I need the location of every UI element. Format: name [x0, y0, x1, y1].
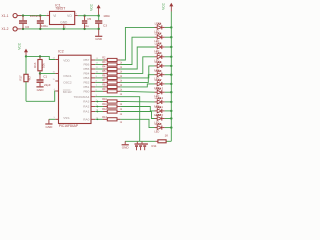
LED LED10	[154, 113, 164, 125]
svg-text:PB5: PB5	[83, 67, 89, 71]
LED LED1	[154, 22, 164, 34]
resistor R16 (RC oscillator)	[33, 56, 45, 73]
junction bus row LED12	[170, 101, 172, 103]
junction RA1 row	[97, 111, 99, 113]
wire node to OSC1	[40, 73, 55, 75]
junction RA0 row	[97, 118, 99, 120]
junction bus row LED2	[170, 36, 172, 38]
svg-text:R3: R3	[102, 61, 106, 64]
junction IC1 GND to rail	[63, 28, 65, 30]
capacitor C3	[95, 20, 102, 29]
wire LED7 to bus	[165, 83, 172, 85]
pin T0CKI/RA4 (3)	[74, 95, 98, 99]
resistor R7	[95, 79, 123, 87]
svg-text:RA1: RA1	[83, 110, 89, 114]
svg-text:R13: R13	[102, 116, 107, 119]
LED LED5	[154, 60, 164, 72]
svg-text:LED5: LED5	[155, 60, 162, 64]
wire VCC node down to C3	[98, 16, 100, 21]
LED LED7	[154, 78, 164, 90]
svg-text:C3: C3	[103, 23, 107, 27]
pin RA3 (2)	[83, 100, 97, 104]
capacitor C1 22pF	[37, 74, 51, 88]
svg-text:PB7: PB7	[83, 58, 89, 62]
LED LED12	[154, 96, 164, 108]
junction bus row LED11	[170, 110, 172, 112]
svg-text:C5: C5	[87, 17, 91, 21]
wire R3 to LED row 2	[120, 37, 154, 64]
resistor R4	[95, 66, 123, 74]
svg-text:RA3: RA3	[83, 100, 89, 104]
wire LED1 to bus	[165, 26, 172, 28]
junction bus row LED7	[170, 83, 172, 85]
svg-text:R12: R12	[102, 108, 107, 111]
LED LED3	[154, 41, 164, 53]
pin PB4 (10)	[83, 72, 98, 76]
wire LED13 to bus	[165, 91, 172, 93]
wire bottom GND rail	[22, 28, 99, 30]
wire R14 to ground	[125, 140, 155, 142]
resistor R5	[95, 70, 123, 78]
wire LED6 to bus	[165, 74, 172, 76]
svg-text:LED7: LED7	[155, 78, 162, 82]
LED LED6	[154, 69, 164, 81]
wire VCC to IC2 VDD	[26, 56, 55, 59]
svg-text:C4: C4	[36, 14, 40, 18]
wire LED2 to bus	[165, 36, 172, 38]
svg-text:1k: 1k	[120, 114, 123, 116]
capacitor C5	[82, 16, 87, 29]
LED LED11	[154, 105, 164, 117]
svg-text:1k: 1k	[120, 109, 123, 111]
junction bus row LED4	[170, 56, 172, 58]
resistor R3	[95, 61, 123, 69]
svg-text:GND: GND	[122, 146, 130, 150]
LED LED9	[154, 122, 164, 134]
svg-text:R14: R14	[152, 144, 157, 148]
junction bus row LED3	[170, 46, 172, 48]
svg-text:VCC: VCC	[161, 2, 165, 10]
wire LED4 to bus	[165, 56, 172, 58]
junction C4 top	[39, 14, 41, 16]
junction C5 bottom	[83, 28, 85, 30]
svg-text:PB1: PB1	[83, 85, 89, 89]
svg-text:1K: 1K	[165, 133, 169, 137]
svg-text:VDD: VDD	[63, 58, 70, 62]
svg-text:X1-2: X1-2	[2, 27, 9, 31]
pin OSC1 (16)	[52, 71, 71, 78]
svg-text:VI: VI	[53, 14, 56, 18]
pin PB1 (7)	[83, 85, 97, 89]
pin MCLR (4)	[54, 89, 73, 94]
svg-text:100n: 100n	[103, 14, 110, 18]
LED LED13	[154, 87, 164, 99]
wire R8 to LED row 7	[120, 84, 154, 87]
svg-text:PB2: PB2	[83, 81, 89, 85]
wire R9 to LED row 8	[120, 90, 154, 93]
junction bus row LED10	[170, 117, 172, 119]
svg-text:GND: GND	[60, 20, 68, 24]
svg-text:VSS: VSS	[63, 116, 69, 120]
resistor R11	[95, 103, 123, 111]
svg-text:LED11: LED11	[155, 105, 164, 109]
svg-text:PB4: PB4	[83, 72, 89, 76]
wire IC1 VO to VCC node	[78, 15, 99, 17]
resistor R13	[95, 116, 123, 124]
wire T0CKI/RA4 down to bottom component	[95, 97, 140, 142]
ground (LED bus R14)	[122, 141, 130, 149]
wire R6 to LED row 5	[120, 66, 154, 78]
junction R16 top	[39, 55, 41, 57]
junction R16/C1/OSC1 node	[39, 72, 41, 74]
svg-text:X1-1: X1-1	[2, 14, 9, 18]
LED LED4	[154, 51, 164, 63]
resistor R14 1K	[155, 133, 171, 142]
wire LED11 to bus	[165, 110, 172, 112]
svg-text:LED12: LED12	[155, 96, 164, 100]
svg-text:5: 5	[54, 117, 56, 119]
svg-text:LED9: LED9	[155, 122, 162, 126]
resistor R2	[95, 57, 123, 65]
junction bus row LED1	[170, 26, 172, 28]
junction bus row LED6	[170, 74, 172, 76]
wire R12 to LED row 11	[120, 112, 154, 119]
svg-text:PB3: PB3	[83, 76, 89, 80]
svg-text:GND: GND	[45, 125, 53, 129]
pin PB7 (13)	[83, 58, 98, 62]
pin VDD (14)	[52, 57, 70, 62]
wire LED5 to bus	[165, 65, 172, 67]
svg-text:C6: C6	[25, 25, 29, 29]
svg-text:LED1: LED1	[155, 22, 162, 26]
svg-text:C1: C1	[43, 75, 47, 79]
pin PB6 (12)	[83, 63, 98, 67]
svg-text:R4: R4	[102, 66, 106, 69]
wire LED10 to bus	[165, 118, 172, 120]
svg-text:LED2: LED2	[155, 32, 162, 36]
pin RA0 (17)	[83, 117, 99, 121]
supply VCC arrow (top)	[90, 3, 101, 15]
svg-text:R7: R7	[102, 79, 106, 82]
wire R7 to LED row 6	[120, 75, 154, 83]
pin OSC2 (15)	[52, 79, 71, 85]
svg-text:R9: R9	[102, 88, 106, 91]
svg-text:14: 14	[52, 57, 55, 59]
junction VCC node top	[98, 15, 100, 17]
svg-text:LED13: LED13	[155, 87, 164, 91]
svg-text:7805T: 7805T	[55, 7, 66, 11]
svg-text:R8: R8	[102, 84, 106, 87]
supply VCC arrow (left)	[17, 42, 28, 56]
junction C4 bottom	[39, 28, 41, 30]
pin PB3 (9)	[83, 76, 97, 80]
component Q1 (triple-lead symbol at bottom center)	[135, 142, 157, 151]
ground GND (top section)	[95, 29, 103, 41]
wire R13 to LED row 12	[120, 119, 154, 127]
connector pin X1-1	[13, 14, 17, 18]
pin PB0 (6)	[83, 89, 97, 93]
wire R4 to LED row 3	[120, 47, 154, 69]
svg-text:16: 16	[52, 71, 55, 73]
resistor R8	[95, 84, 123, 92]
svg-text:PB0: PB0	[83, 89, 89, 93]
svg-text:R17: R17	[18, 75, 22, 81]
svg-text:15: 15	[52, 79, 55, 81]
svg-text:1k: 1k	[120, 104, 123, 106]
junction RA2 row	[97, 106, 99, 108]
pin RA1 (18)	[83, 110, 99, 114]
svg-text:VO: VO	[67, 14, 72, 18]
resistor R10	[95, 98, 123, 106]
svg-text:LED6: LED6	[155, 69, 162, 73]
svg-text:22pF: 22pF	[44, 83, 51, 87]
supply VCC arrow (LED bus)	[161, 2, 173, 11]
wire R2 to LED row 1	[120, 27, 154, 60]
svg-text:R6: R6	[102, 75, 106, 78]
resistor R17 (MCLR pull-up)	[18, 56, 31, 101]
wire R5 to LED row 4	[120, 57, 154, 74]
resistor R6	[95, 75, 123, 83]
ground (C1)	[36, 86, 44, 92]
junction C3 bottom / GND drop	[98, 28, 100, 30]
junction bus row LED13	[170, 91, 172, 93]
ground (VSS)	[45, 119, 53, 129]
svg-text:OSC2: OSC2	[63, 81, 72, 85]
svg-text:R2: R2	[102, 57, 106, 60]
wire LED9 to bus	[165, 127, 172, 129]
svg-text:RA2: RA2	[83, 105, 89, 109]
wire LED12 to bus	[165, 101, 172, 103]
svg-text:VCC: VCC	[90, 3, 94, 11]
wire R10 to LED row 9	[120, 101, 154, 103]
wire LED common bus vertical	[170, 12, 172, 142]
svg-text:GND: GND	[95, 37, 103, 41]
svg-text:VCC: VCC	[17, 42, 21, 50]
svg-text:10k: 10k	[42, 63, 46, 68]
svg-text:LED: LED	[154, 131, 159, 134]
svg-text:4k7: 4k7	[27, 76, 31, 81]
svg-text:PIC16F84AP: PIC16F84AP	[59, 124, 79, 128]
svg-text:1k: 1k	[120, 94, 123, 96]
wire VSS to ground	[49, 118, 55, 120]
pin RA2 (1)	[83, 105, 97, 109]
pin VSS (5)	[54, 116, 70, 120]
pin PB2 (8)	[83, 81, 97, 85]
svg-text:T0CKI/RA4: T0CKI/RA4	[74, 95, 90, 99]
junction C6 bottom	[22, 28, 24, 30]
svg-text:LED10: LED10	[155, 113, 164, 117]
wire R17 to MCLR	[26, 91, 55, 101]
svg-text:LED3: LED3	[155, 41, 162, 45]
wire R11 to LED row 10	[120, 107, 154, 111]
resistor R9	[95, 88, 123, 96]
svg-text:100u: 100u	[41, 24, 48, 28]
svg-text:PB6: PB6	[83, 63, 89, 67]
svg-text:10u: 10u	[84, 24, 89, 28]
svg-text:1k: 1k	[120, 122, 123, 124]
wire top rail X1-1 to IC1 VI	[22, 15, 47, 17]
junction C6 top	[22, 14, 24, 16]
connector pin X1-2	[13, 27, 17, 31]
svg-text:R10: R10	[102, 98, 107, 101]
svg-text:OSC1: OSC1	[63, 74, 72, 78]
svg-text:MCLR: MCLR	[63, 90, 73, 94]
IC2 PIC16F84AP microcontroller	[58, 50, 91, 129]
capacitor C4	[37, 16, 44, 29]
svg-text:R16: R16	[33, 62, 37, 68]
capacitor C6	[19, 16, 27, 29]
junction bus row LED9	[170, 126, 172, 128]
junction C5 top	[83, 15, 85, 17]
pin PB5 (11)	[83, 67, 98, 71]
junction bus row LED5	[170, 65, 172, 67]
junction VCC left / R17 branch	[25, 55, 27, 57]
LED LED2	[154, 32, 164, 44]
voltage regulator IC1 7805T	[46, 3, 78, 29]
wire LED3 to bus	[165, 46, 172, 48]
svg-text:R11: R11	[102, 103, 107, 106]
junction RA3 row	[97, 101, 99, 103]
svg-text:GND: GND	[37, 88, 45, 92]
svg-text:LED4: LED4	[155, 51, 162, 55]
svg-text:4: 4	[54, 89, 56, 91]
svg-text:IC2: IC2	[58, 50, 64, 54]
svg-text:RA0: RA0	[83, 117, 89, 121]
resistor R12	[95, 108, 123, 116]
svg-text:R5: R5	[102, 70, 106, 73]
